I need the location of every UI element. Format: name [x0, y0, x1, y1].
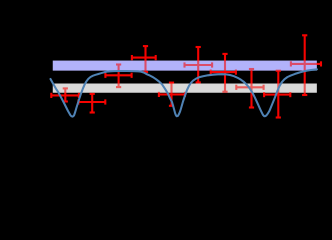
blue horizontal band [53, 61, 317, 71]
gray horizontal band [53, 84, 317, 93]
data point 10 error bars [291, 35, 321, 95]
data point 1 error bars [51, 88, 79, 101]
data point 7 error bars [211, 54, 236, 92]
data point 8 error bars [236, 69, 263, 108]
blue band translucent overlay (softens bars inside band) [53, 61, 317, 71]
data point 9 error bars [264, 71, 290, 118]
gray band translucent overlay [53, 84, 317, 93]
model light curve [51, 69, 317, 116]
data point 2 error bars [78, 94, 105, 113]
data point 4 error bars [132, 46, 156, 72]
data point 3 error bars [105, 65, 131, 88]
data point 5 error bars [159, 83, 185, 106]
data point 6 error bars [185, 47, 213, 82]
